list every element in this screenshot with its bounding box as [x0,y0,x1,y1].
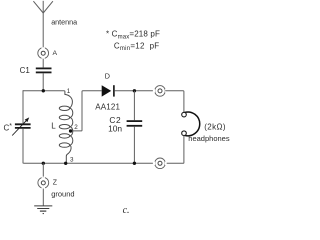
svg-text:D: D [105,72,110,81]
headphones arc [185,112,200,136]
wire terminal to headphone corner [165,91,184,113]
node diode/C2 junction [133,89,136,92]
left wire upper [22,90,24,123]
diode D (AA121) [102,85,112,96]
ground [34,206,52,214]
wire to terminal Z [42,163,44,176]
terminal bottom-right [153,158,166,169]
node tap 2 [69,129,72,132]
headphone top contact circle [182,112,187,117]
capacitor C2 [127,121,143,126]
wire C2 branch lower [133,127,135,164]
wire diode to terminal [115,90,153,92]
wire A to C1 [42,59,44,67]
wire Z to ground [42,189,44,206]
svg-text:3: 3 [70,157,74,164]
C* arrow [12,121,26,136]
wire headphone bottom down [165,136,184,164]
left wire lower [22,129,24,164]
headphone bottom contact circle [182,131,187,136]
bottom wire [23,162,153,165]
node junction C1/top wire [42,89,45,92]
capacitor C1 [36,68,52,72]
terminal Z [38,177,49,188]
svg-text:A: A [53,50,58,57]
svg-text:ground: ground [51,189,74,198]
svg-text:2: 2 [74,124,78,131]
node coil bottom [64,162,67,165]
terminal top-right [153,86,166,97]
svg-text:headphones: headphones [188,134,230,143]
variable capacitor C* [15,124,31,128]
svg-text:L: L [51,122,56,131]
svg-text:antenna: antenna [51,18,77,27]
antenna [33,1,53,47]
node Z branch [42,162,45,165]
top wire [23,90,64,92]
svg-text:c.: c. [123,205,130,216]
svg-text:(2kΩ): (2kΩ) [204,122,226,131]
svg-text:10n: 10n [108,123,122,133]
inductor L coil [59,91,73,164]
node C2 bottom [133,162,136,165]
tap 2 wire [71,91,102,131]
wire C2 branch upper [133,91,135,120]
terminal A [38,47,49,58]
svg-text:1: 1 [67,88,71,95]
wire C1 to junction [42,73,44,91]
svg-text:Z: Z [53,180,58,187]
svg-text:C1: C1 [20,66,31,75]
svg-text:AA121: AA121 [95,103,120,112]
